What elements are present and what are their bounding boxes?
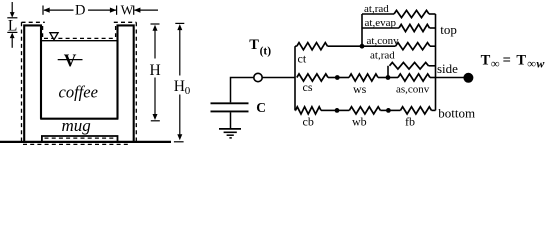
svg-text:fb: fb [405,115,415,129]
svg-text:at,conv: at,conv [367,35,400,47]
svg-text:0: 0 [185,85,191,97]
svg-text:∞: ∞ [527,56,536,70]
resistor at,conv [362,45,396,47]
right vertical bus [435,14,437,110]
svg-text:w: w [536,57,545,71]
svg-text:C: C [256,100,266,115]
svg-text:coffee: coffee [59,83,98,102]
resistor cb [294,109,297,111]
dimension W [134,6,158,15]
resistor cs [297,74,328,81]
junction dot top split [360,44,365,49]
svg-text:(t): (t) [260,46,272,58]
wire from node to capacitor [231,78,255,103]
svg-text:L: L [8,17,17,34]
svg-text:ws: ws [353,82,367,96]
junction dot wb-fb [386,108,391,113]
svg-text:as,conv: as,conv [396,84,430,96]
wire capacitor to ground [230,112,232,128]
dimension L [7,2,17,48]
svg-text:at,rad: at,rad [370,50,395,62]
table ground line [0,141,171,143]
svg-text:W: W [121,2,134,17]
mug bottom recess [42,136,118,142]
dimension D [43,6,117,15]
svg-text:H: H [150,62,161,79]
resistor wb [337,109,349,111]
svg-text:ct: ct [298,52,307,66]
wire node to branch vertical [262,77,295,79]
svg-text:D: D [75,3,85,19]
dimension H [151,24,160,121]
dashed control-surface outline around mug [22,22,137,144]
svg-text:=: = [503,52,511,68]
resistor ws [337,77,349,79]
resistor fb [388,109,400,111]
svg-text:cs: cs [303,80,313,94]
svg-text:wb: wb [352,115,367,129]
svg-text:top: top [440,22,457,37]
svg-text:∞: ∞ [491,56,500,70]
svg-text:at,rad: at,rad [364,3,389,15]
ground symbol [219,129,241,138]
side split vertical [387,66,389,78]
ambient terminal node [463,73,473,83]
resistor ct [297,43,328,50]
resistor at,rad (top) [362,13,394,15]
resistor at,evap [362,27,399,29]
resistor as,conv [388,77,398,79]
coffee surface line [41,40,118,42]
svg-text:H: H [174,78,185,95]
junction dot cs-ws [335,75,340,80]
svg-text:cb: cb [303,115,314,129]
junction dot side split [386,75,391,80]
svg-text:T: T [516,53,526,69]
svg-text:T: T [481,53,491,69]
dimension H0 [174,23,184,141]
svg-text:mug: mug [62,116,91,135]
svg-text:side: side [437,61,458,76]
left branch vertical [294,46,296,110]
svg-text:bottom: bottom [438,106,475,121]
node circle at T(t) [254,73,262,81]
wire to ambient terminal [436,77,465,79]
svg-text:at,evap: at,evap [365,17,397,29]
mug cavity bottom [40,118,118,120]
junction dot cb-wb [335,108,340,113]
free-surface nabla marker [50,33,58,40]
mug left wall [24,25,41,142]
mug right wall [118,25,134,142]
capacitor C plates [211,102,249,104]
resistor at,rad (side) [390,63,429,70]
top split vertical [361,14,363,46]
svg-text:V: V [64,51,77,71]
svg-text:T: T [249,37,259,53]
